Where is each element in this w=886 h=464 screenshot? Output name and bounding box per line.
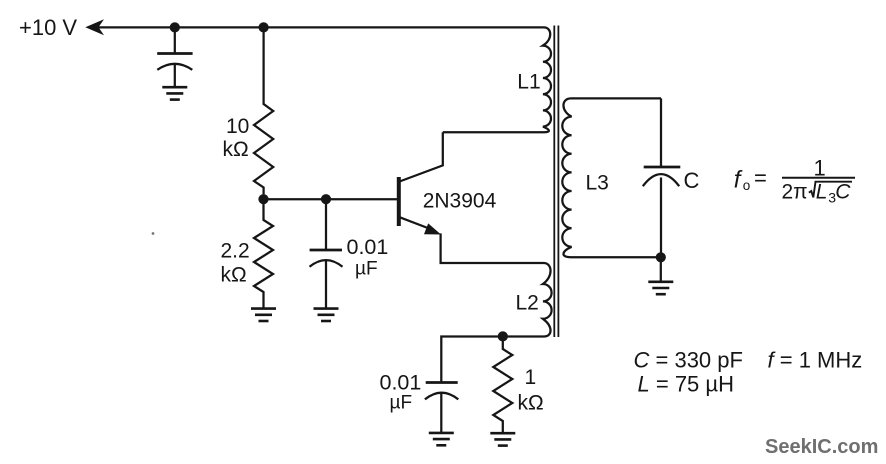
svg-text:kΩ: kΩ bbox=[221, 264, 247, 287]
svg-text:1: 1 bbox=[814, 156, 826, 181]
svg-text:L1: L1 bbox=[517, 71, 540, 94]
ground (2.2k) bbox=[251, 309, 276, 321]
junction dot (bypass cap tap) bbox=[170, 22, 180, 32]
svg-text:µF: µF bbox=[355, 259, 378, 280]
svg-text:o: o bbox=[743, 178, 751, 193]
svg-text:L2: L2 bbox=[516, 292, 539, 315]
transistor Q1 2N3904 bbox=[399, 132, 544, 263]
bypass capacitor (supply) bbox=[157, 27, 192, 87]
wire: L2 bottom to 0.01uF bbox=[441, 337, 544, 383]
svg-text:+10 V: +10 V bbox=[19, 15, 77, 40]
resistor R2 2.2 kOhm bbox=[254, 199, 273, 308]
ground (emitter cap) bbox=[429, 433, 454, 445]
ground (bypass cap) bbox=[162, 87, 187, 99]
svg-text:µF: µF bbox=[390, 393, 413, 414]
capacitor C bbox=[643, 167, 681, 257]
ground (1k) bbox=[490, 433, 515, 445]
svg-text:L: L bbox=[816, 181, 828, 204]
transformer core bbox=[554, 26, 558, 338]
svg-text:kΩ: kΩ bbox=[223, 138, 249, 161]
formula fo = 1/(2 pi sqrt(L3 C)) bbox=[734, 156, 855, 206]
svg-text:L3: L3 bbox=[586, 172, 609, 195]
resistor R1 10 kOhm bbox=[254, 27, 273, 194]
svg-text:SeekIC.com: SeekIC.com bbox=[765, 436, 878, 458]
svg-text:10: 10 bbox=[226, 115, 249, 138]
svg-text:f = 1 MHz: f = 1 MHz bbox=[768, 347, 863, 372]
junction dot (base node left) bbox=[258, 194, 268, 204]
junction dot (10k tap on rail) bbox=[259, 22, 269, 32]
stray mark bbox=[152, 232, 155, 235]
inductor L3 (secondary winding) bbox=[562, 98, 661, 257]
svg-text:C: C bbox=[684, 168, 700, 193]
inductor L2 (primary bottom winding) bbox=[543, 263, 552, 337]
wire: collector to L1 bbox=[443, 131, 544, 133]
ground (secondary) bbox=[648, 257, 673, 294]
capacitor 0.01 uF (emitter side) bbox=[425, 383, 458, 433]
svg-text:=: = bbox=[754, 166, 767, 191]
svg-text:C = 330 pF: C = 330 pF bbox=[634, 347, 743, 372]
svg-text:2π: 2π bbox=[782, 181, 808, 204]
svg-text:L = 75 µH: L = 75 µH bbox=[638, 371, 734, 396]
svg-text:0.01: 0.01 bbox=[347, 235, 389, 259]
junction dot (cap tap on base node) bbox=[321, 194, 331, 204]
wire: +10V top rail bbox=[97, 26, 544, 28]
svg-text:0.01: 0.01 bbox=[380, 371, 422, 395]
supply arrow bbox=[85, 19, 104, 35]
junction dot (1k tap) bbox=[498, 331, 508, 341]
svg-text:C: C bbox=[835, 181, 851, 204]
svg-text:2.2: 2.2 bbox=[221, 240, 250, 263]
capacitor 0.01 uF (base bypass) bbox=[310, 199, 343, 308]
wire: base node bbox=[264, 198, 398, 200]
svg-text:1: 1 bbox=[525, 366, 537, 389]
ground (base cap) bbox=[314, 309, 339, 321]
svg-text:2N3904: 2N3904 bbox=[423, 190, 497, 213]
inductor L1 (primary top winding) bbox=[543, 27, 551, 132]
junction dot (C / L3 / ground) bbox=[656, 252, 666, 262]
wire: L3 top to C bbox=[660, 98, 662, 166]
resistor R3 1 kOhm bbox=[493, 336, 512, 433]
svg-text:kΩ: kΩ bbox=[518, 392, 544, 415]
